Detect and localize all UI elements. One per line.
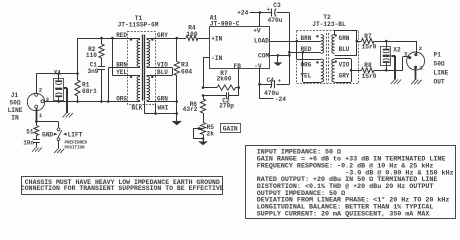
node YEL link top junction [111, 37, 114, 40]
label pin -V [254, 63, 262, 70]
capacitor C3 470u [272, 9, 290, 17]
node vertA top [296, 40, 299, 43]
node BRN link junction [107, 100, 110, 103]
wire VIO lead T2 [335, 58, 351, 60]
label pin +IN [211, 35, 222, 42]
svg-text:R8: R8 [364, 62, 372, 69]
wire COM lead [270, 55, 290, 57]
label 51 [26, 129, 34, 136]
wire VIO-GRY link [351, 59, 353, 82]
svg-text:470u: 470u [268, 17, 283, 24]
wire GRN lead [147, 101, 177, 103]
ground arrow R5 [199, 142, 208, 145]
label J1 50 ohm LINE IN [8, 92, 23, 122]
surge protector X2 [381, 46, 391, 65]
node R2 top junction [100, 37, 103, 40]
node R1 top junction [76, 72, 79, 75]
node R7 output tap [356, 40, 359, 43]
wire R5 ground stem [203, 139, 205, 142]
label ORG [116, 96, 127, 103]
label T2 [312, 14, 346, 28]
svg-text:SUPPLY CURRENT: 20 mA QUIESCEN: SUPPLY CURRENT: 20 mA QUIESCENT, 350 mA … [257, 210, 431, 218]
wire switch to ground [58, 141, 60, 149]
node WHI junction [154, 112, 157, 115]
label GAIN box [221, 124, 241, 133]
svg-text:X2: X2 [393, 47, 401, 54]
node fb left top [202, 86, 205, 89]
node C1 bottom junction [100, 100, 103, 103]
svg-text:15r0: 15r0 [362, 44, 377, 51]
label C4 [264, 77, 279, 97]
wire input hot riser [77, 38, 79, 74]
resistor R7 15r0 output [357, 38, 386, 43]
svg-text:JT-990-C: JT-990-C [210, 20, 240, 27]
label R7 output [362, 33, 377, 50]
svg-text:43r2: 43r2 [183, 106, 198, 113]
svg-text:BRN: BRN [301, 35, 312, 42]
wire COM ground stem [277, 55, 279, 62]
wire X1 bottom lead [58, 100, 60, 102]
label BLU T2 [339, 46, 350, 53]
svg-text:3n9: 3n9 [87, 68, 98, 75]
svg-text:+V: +V [253, 27, 261, 34]
T2 phase dot BRN [316, 35, 318, 37]
T1 primary winding YEL-ORG [137, 77, 140, 101]
node shield junction [35, 120, 38, 123]
svg-text:2k00: 2k00 [217, 76, 232, 83]
label C4 plus [278, 78, 282, 85]
wire X1 top lead [58, 74, 60, 79]
wire FB lead [238, 69, 240, 96]
wire top bus to T1 [78, 38, 141, 40]
wire input hot bus horizontal [36, 73, 77, 75]
resistor R2 110 [99, 38, 104, 58]
label -24 [275, 96, 286, 103]
node fb left bottom [202, 94, 205, 97]
wire LOAD to BRN [270, 41, 321, 43]
svg-text:-V: -V [254, 63, 262, 70]
svg-text:GAIN: GAIN [223, 126, 238, 133]
wire GRY lead T2 [335, 82, 351, 84]
wire -24 rail [260, 98, 274, 100]
potentiometer R5 2k [200, 123, 205, 139]
node X2 top junction [385, 40, 388, 43]
label C3 [268, 2, 283, 24]
wire YEL lead T2 [303, 82, 321, 84]
svg-text:GND: GND [42, 131, 53, 138]
svg-text:50Ω: 50Ω [434, 60, 445, 67]
wire T1 shield WHI [155, 104, 157, 114]
label GRY T2 [339, 73, 350, 80]
label J1 pin 3 [46, 96, 50, 103]
svg-text:OUT: OUT [434, 78, 445, 85]
svg-text:-IN: -IN [211, 55, 222, 62]
svg-text:+24: +24 [237, 10, 248, 17]
T2 primary winding ORG-YEL [321, 59, 324, 82]
label pin -IN [211, 55, 222, 62]
wire shield bus [145, 113, 177, 115]
node RED tap [288, 51, 291, 54]
label preferred position [65, 142, 88, 151]
label pin FB [234, 63, 242, 70]
label C3 plus [267, 6, 271, 13]
capacitor 10n ground lift [33, 136, 40, 148]
label A1 [210, 15, 240, 28]
resistor 51 ground lift [34, 122, 39, 136]
label GND position [42, 131, 57, 138]
svg-text:-24: -24 [275, 96, 286, 103]
wire T1 shield BLK [144, 101, 146, 114]
svg-text:C4: C4 [267, 77, 275, 84]
ground chassis at P1 [411, 80, 421, 85]
wire X2 top lead [386, 41, 388, 46]
wire X2 bottom lead [386, 65, 388, 70]
label VIO [157, 62, 168, 69]
T2 primary winding BRN-RED [321, 35, 324, 54]
T2 phase dot GRN [335, 34, 337, 36]
wire X2 center electrode to chassis [391, 56, 395, 80]
T2 secondary winding GRN-BLU [332, 35, 335, 54]
svg-text:2k: 2k [207, 130, 215, 137]
label pin COM [258, 53, 269, 60]
svg-text:270p: 270p [219, 103, 234, 110]
wire -IN lead [203, 58, 210, 88]
label RED T2 [301, 46, 312, 53]
T1 phase dot RED [130, 38, 132, 40]
label YEL [116, 69, 127, 76]
surge protector X1 [54, 78, 64, 101]
wire R7 to P1 pin2 [386, 41, 416, 54]
capacitor C1 3n9 [98, 58, 105, 102]
svg-text:110: 110 [86, 52, 97, 59]
label ORG T2 [301, 62, 312, 69]
node C4 junction [258, 83, 261, 86]
svg-text:ORG: ORG [116, 96, 127, 103]
svg-text:100: 100 [186, 31, 197, 38]
ground arrow T1 secondary [172, 121, 181, 125]
T1 phase dot YEL [130, 76, 132, 78]
node X1 top junction [57, 72, 60, 75]
label pin LOAD [254, 38, 269, 45]
svg-text:JT-123-BL: JT-123-BL [312, 21, 346, 28]
label GRY [157, 32, 168, 39]
label VIO T2 [339, 62, 350, 69]
label R2 [86, 46, 97, 59]
ground chassis below S1 [54, 149, 64, 153]
svg-text:IN: IN [11, 115, 19, 122]
node X2 bottom junction [385, 69, 388, 72]
T1 phase dot GRY [151, 38, 153, 40]
label R5 [207, 124, 215, 138]
label BLU [157, 69, 168, 76]
svg-text:51: 51 [26, 129, 34, 136]
label BRN T2 [301, 35, 312, 42]
label 10n [23, 139, 34, 146]
label C1 [87, 62, 98, 75]
wire BLU lead [335, 55, 357, 57]
label R8 output [362, 62, 377, 80]
label J1 pin 2 [39, 86, 43, 93]
wire BRN parallel link [108, 68, 140, 102]
svg-text:RED: RED [116, 32, 127, 39]
svg-text:604: 604 [181, 68, 192, 75]
wire GRY lead to R4 [147, 38, 186, 40]
resistor R4 100 [186, 35, 210, 40]
wire R8 to P1 pin3 [386, 57, 409, 71]
svg-text:COM: COM [258, 53, 269, 60]
transformer T1 dashed box [128, 32, 156, 105]
svg-text:VIO: VIO [339, 62, 350, 69]
label R7 feedback [217, 70, 232, 82]
svg-text:68r1: 68r1 [82, 88, 97, 95]
svg-text:RED: RED [301, 46, 312, 53]
svg-text:GRY: GRY [339, 73, 350, 80]
svg-text:LIFT: LIFT [68, 131, 83, 138]
label C2 [219, 97, 234, 109]
node COM ground junction [277, 54, 280, 57]
svg-text:WHI: WHI [158, 105, 169, 112]
label R3 [181, 62, 192, 76]
wire +V lead [259, 13, 261, 27]
label WHI [158, 105, 169, 112]
svg-text:GRN: GRN [339, 35, 350, 42]
svg-text:LOAD: LOAD [254, 38, 269, 45]
label +24 [237, 10, 248, 17]
T1 secondary winding BLU-GRN [147, 77, 150, 101]
node shield to secondary ground [176, 112, 179, 115]
svg-text:+IN: +IN [211, 35, 222, 42]
svg-text:POSITION: POSITION [65, 146, 86, 150]
switch S1 ground lift [57, 128, 62, 141]
specifications box [246, 146, 456, 219]
node R5 bottom [202, 137, 205, 140]
connector P1 XLR male 50 ohm line out [407, 52, 425, 70]
wire ground drop T1 [176, 102, 178, 122]
wire X1 center electrode to chassis [64, 88, 67, 113]
resistor R8 15r0 output [351, 68, 386, 73]
ground chassis at X1 [63, 113, 73, 118]
svg-text:BRN: BRN [116, 62, 127, 69]
label R4 [186, 25, 197, 38]
T1 secondary winding GRY-VIO [147, 40, 150, 67]
resistor R7 2k00 feedback [203, 85, 239, 90]
wire parallel link B [302, 52, 304, 82]
label LIFT position [63, 131, 83, 138]
label GRN T2 [339, 35, 350, 42]
node R8 output tap [350, 69, 353, 72]
svg-text:BLU: BLU [339, 46, 350, 53]
label P1 pin 2 [419, 45, 423, 52]
node R3 top junction [176, 37, 179, 40]
svg-text:R7: R7 [364, 33, 372, 40]
label P1 pin 1 [420, 65, 424, 72]
svg-text:J1: J1 [11, 92, 19, 99]
capacitor C2 270p [203, 92, 239, 98]
label R1 [82, 82, 97, 95]
svg-text:P1: P1 [434, 51, 442, 58]
node X1 bottom junction [57, 100, 60, 103]
wire to ground switch [36, 122, 58, 128]
wire BLU lead [147, 75, 173, 77]
ground arrow COM [274, 63, 282, 66]
wire P1 pin1 shield to chassis [415, 67, 417, 80]
svg-text:LINE: LINE [434, 69, 449, 76]
wire RED lead T2 [289, 52, 321, 54]
T1 phase dot BLU [151, 76, 153, 78]
node R1 bottom junction [76, 100, 79, 103]
svg-text:BLK: BLK [132, 105, 143, 112]
resistor R3 604 [174, 38, 179, 102]
svg-text:PREFERRED: PREFERRED [65, 142, 88, 146]
label X1 [54, 69, 62, 76]
transformer T2 dashed box [297, 31, 359, 84]
T2 secondary winding VIO-GRY [332, 59, 335, 82]
svg-text:C3: C3 [273, 2, 281, 9]
capacitor C4 470u [260, 80, 290, 88]
label BRN [116, 62, 127, 69]
node +V junction [259, 11, 262, 14]
label RED [116, 32, 127, 39]
svg-text:YEL: YEL [301, 73, 312, 80]
node R3 bottom junction [176, 100, 179, 103]
wire C3 drop to COM [289, 13, 291, 85]
label T1 [118, 15, 159, 29]
wire GRN-BLU link [356, 30, 358, 55]
wire -V lead [259, 69, 261, 99]
T2 phase dot ORG [316, 61, 318, 63]
svg-text:FB: FB [234, 63, 242, 70]
svg-text:10n: 10n [23, 139, 34, 146]
wire J1 pin1 shield lead [36, 108, 38, 121]
transformer T2 core [327, 33, 329, 83]
chassis ground note box [22, 177, 223, 195]
wire parallel link A [296, 41, 298, 60]
svg-text:X1: X1 [54, 69, 62, 76]
chassis ground note text [21, 179, 224, 192]
node vertB top [302, 51, 305, 54]
label GRN [157, 96, 168, 103]
T1 primary winding RED-BRN [137, 40, 140, 67]
label P1 pin 3 [404, 50, 408, 57]
label YEL T2 [301, 73, 312, 80]
svg-text:JT-11SSP-6M: JT-11SSP-6M [118, 22, 159, 29]
transformer T1 core [143, 35, 145, 101]
wire GRN lead [335, 30, 357, 34]
svg-text:YEL: YEL [116, 69, 127, 76]
wire J1 pin2 up [36, 74, 38, 94]
label P1 50 ohm LINE OUT [434, 51, 449, 85]
ground chassis below 10n [32, 148, 42, 152]
label BLK [132, 105, 143, 112]
ground chassis at X2 [391, 80, 401, 85]
connector J1 XLR female 50 ohm line in [27, 93, 44, 110]
wire YEL parallel link [112, 38, 140, 76]
svg-text:GRY: GRY [157, 32, 168, 39]
resistor R1 68r1 [75, 74, 80, 102]
op-amp A1 JT-990-C box [210, 27, 270, 69]
wire VIO-BLU series link [172, 68, 174, 76]
svg-text:50Ω: 50Ω [9, 100, 20, 107]
wire +24 rail [250, 12, 272, 14]
specifications text [257, 149, 454, 219]
wire ORG lead T2 [297, 59, 321, 61]
node COM tap [288, 54, 291, 57]
label J1 pin 1 [39, 112, 43, 119]
svg-text:15r0: 15r0 [362, 73, 377, 80]
T2 phase dot VIO [335, 60, 337, 62]
resistor R6 43r2 [200, 96, 205, 123]
label R6 [183, 101, 198, 113]
wire input low bus [44, 101, 140, 103]
wire VIO lead [147, 67, 173, 69]
label X2 [393, 47, 401, 54]
label pin +V [253, 27, 261, 34]
svg-text:CONNECTION FOR TRANSIENT SUPPR: CONNECTION FOR TRANSIENT SUPPRESSION TO … [21, 185, 224, 192]
R5 wiper [193, 127, 203, 139]
svg-text:LINE: LINE [8, 107, 23, 114]
node fb right [238, 86, 241, 89]
